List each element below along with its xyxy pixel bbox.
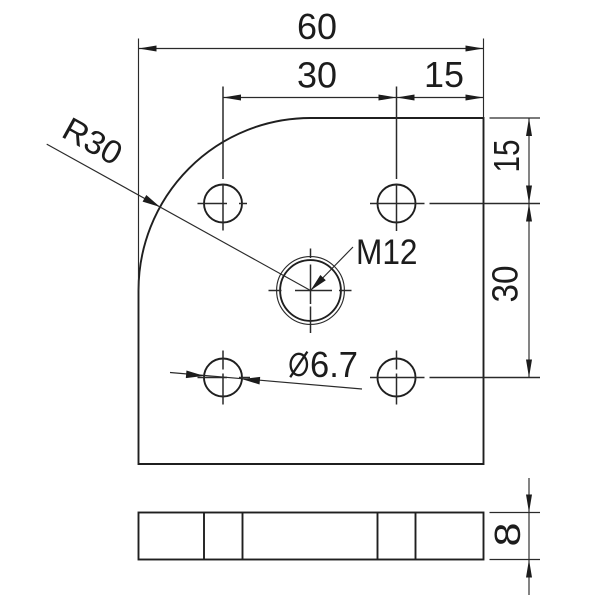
svg-text:30: 30 <box>485 266 526 303</box>
svg-text:8: 8 <box>487 523 528 547</box>
svg-text:15: 15 <box>424 54 464 95</box>
svg-text:M12: M12 <box>356 233 418 272</box>
svg-text:60: 60 <box>297 6 337 47</box>
svg-text:6.7: 6.7 <box>310 344 358 385</box>
svg-text:30: 30 <box>297 55 337 96</box>
svg-text:15: 15 <box>486 140 527 173</box>
